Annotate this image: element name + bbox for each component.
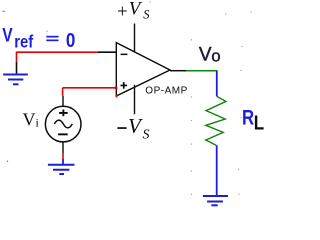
op-amp U1 triangle [116, 43, 170, 96]
svg-text:i: i [36, 115, 40, 129]
wire output down to resistor (blue) [216, 71, 218, 96]
svg-text:S: S [143, 8, 150, 22]
source plus mark [59, 110, 68, 117]
svg-text:o: o [211, 48, 220, 66]
svg-text:V: V [129, 0, 143, 20]
ground (Vi) [48, 165, 75, 174]
wire +Vs supply [134, 24, 136, 53]
source Vi circle [45, 106, 81, 142]
wire output (green) [186, 70, 218, 72]
svg-text:S: S [143, 128, 150, 143]
junction dot noninverting input [115, 87, 118, 90]
ground (RL) [203, 196, 228, 205]
source sine mark [54, 120, 72, 128]
svg-text:V: V [199, 44, 212, 65]
label -Vs [117, 114, 149, 143]
stray speck marks [2, 2, 251, 196]
resistor RL zigzag [206, 96, 226, 145]
source minus mark [58, 133, 68, 135]
svg-text:ref: ref [14, 32, 34, 51]
wire output (black) [170, 70, 186, 72]
label RL [242, 107, 264, 134]
wire Vi bottom (red) [62, 153, 64, 159]
op-amp plus pin mark [121, 82, 128, 89]
label Vi [23, 109, 40, 129]
ground (Vref node) [3, 75, 28, 85]
svg-text:L: L [254, 111, 264, 134]
node Vref label [2, 24, 75, 52]
svg-text:R: R [242, 107, 254, 130]
svg-text:V: V [2, 24, 13, 46]
wire noninverting input (red) [63, 87, 116, 89]
wire Vi top vertical (black) [62, 96, 64, 107]
wire Vref to ground (red) [16, 52, 18, 63]
wire Vi bottom (blue) [62, 159, 64, 165]
label Vo [199, 44, 221, 65]
wire resistor to ground (blue) [216, 145, 218, 196]
wire inverting input (red part) [17, 51, 99, 53]
wire inverting input (black part) [98, 51, 116, 53]
svg-text:0: 0 [66, 29, 75, 52]
svg-text:+: + [117, 1, 128, 22]
svg-text:V: V [128, 114, 143, 138]
label +Vs [117, 0, 150, 22]
wire Vi top vertical (red) [62, 88, 64, 96]
svg-text:V: V [23, 109, 36, 129]
wire Vi bottom (black) [62, 142, 64, 153]
op-amp minus pin mark [121, 54, 128, 56]
wire Vref to ground (black) [16, 62, 18, 74]
red mark at triangle bottom-left corner [116, 95, 118, 98]
svg-text:OP-AMP: OP-AMP [145, 86, 187, 97]
wire -Vs supply [134, 85, 136, 114]
